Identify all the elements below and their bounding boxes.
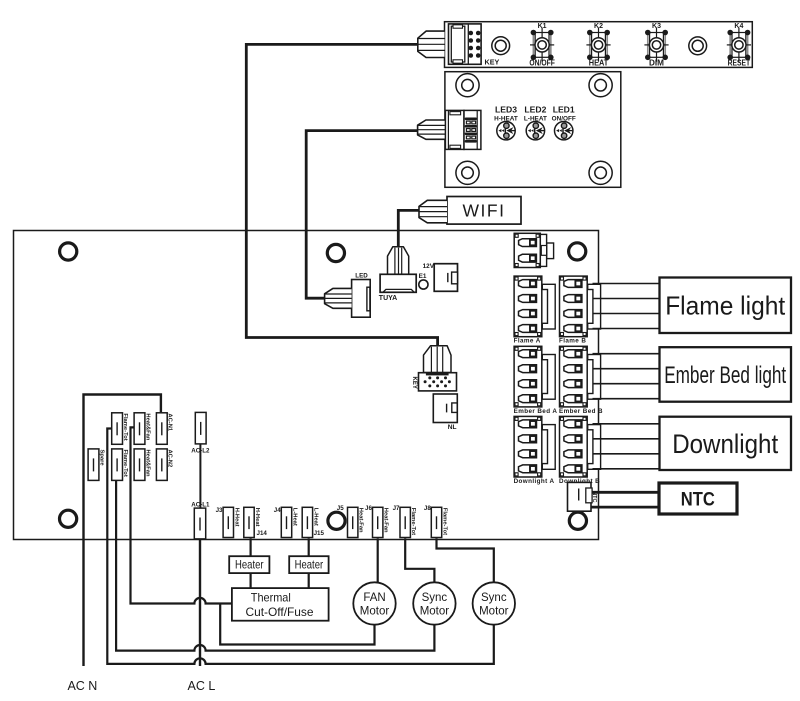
motor Sync Motor 2 (473, 582, 515, 624)
svg-text:J7: J7 (393, 505, 400, 512)
connector Flame B (560, 276, 601, 337)
svg-text:H-Heat: H-Heat (254, 508, 260, 527)
svg-text:L-Heat: L-Heat (312, 508, 318, 526)
main board hole TL (60, 243, 77, 260)
svg-text:KEY: KEY (411, 377, 417, 389)
box NTC (659, 483, 737, 514)
svg-text:J3: J3 (216, 507, 223, 514)
svg-text:J8: J8 (424, 505, 431, 512)
wire Flame B pin4 to Flame light box (593, 328, 660, 330)
svg-text:J15: J15 (314, 530, 325, 537)
connector Flame-Tot (row2) (112, 449, 123, 481)
button K2 HEAT (586, 28, 610, 62)
svg-text:AC N: AC N (67, 679, 97, 693)
svg-text:NTC: NTC (681, 489, 715, 511)
key button strip PCB board (445, 22, 753, 68)
svg-text:E1: E1 (419, 273, 427, 280)
connector J14 H-Heat (244, 507, 254, 537)
main board hole BL (60, 510, 77, 527)
TUYA wifi module U-TUYA (380, 274, 416, 292)
svg-text:LED1: LED1 (553, 105, 575, 115)
connector J15 L-Heat (302, 507, 312, 537)
connector J7 Flame-Tot (400, 507, 410, 537)
svg-text:J5: J5 (337, 505, 344, 512)
svg-text:Heat-Fan: Heat-Fan (358, 508, 364, 533)
connector J8 Flame-Tot (431, 507, 441, 537)
svg-text:Flame-Tot: Flame-Tot (122, 413, 128, 440)
LED board hole BL (456, 161, 479, 184)
button K4 RESET (727, 28, 751, 62)
svg-text:Heat-Fan: Heat-Fan (383, 508, 389, 533)
svg-text:K1: K1 (538, 23, 547, 30)
svg-text:Motor: Motor (360, 606, 390, 618)
box Heater 2 (289, 556, 328, 573)
svg-text:Flame-Tot: Flame-Tot (410, 508, 416, 535)
main board hole BR (569, 512, 586, 529)
wire J15 to Heater2 (308, 538, 310, 556)
svg-text:Flame-Tot: Flame-Tot (122, 450, 128, 477)
svg-text:LED: LED (355, 273, 368, 280)
svg-text:Thermal: Thermal (251, 590, 291, 604)
svg-text:Sync: Sync (422, 592, 448, 604)
connector Heat&Fan (row1) (134, 413, 145, 445)
wire Downlight B pin3 to Downlight box (593, 453, 660, 455)
svg-text:FAN: FAN (363, 592, 385, 604)
LED board hole BR (589, 161, 612, 184)
svg-text:KEY: KEY (485, 57, 500, 66)
LED board hole TL (456, 74, 479, 97)
motor FAN Motor (353, 582, 395, 624)
wire AC N feed to AC-N1 (84, 395, 161, 667)
connector on LED board (445, 110, 481, 149)
svg-text:Downlight: Downlight (672, 429, 778, 459)
wire key-strip to main board KEY connector (246, 44, 437, 346)
svg-text:L-Heat: L-Heat (292, 508, 298, 526)
svg-text:H-Heat: H-Heat (233, 508, 239, 527)
svg-text:K3: K3 (652, 23, 661, 30)
WIFI module box (447, 197, 521, 225)
wire Downlight B pin2 to Downlight box (593, 438, 660, 440)
wire Downlight B pin4 to Downlight box (593, 468, 660, 470)
hole on strip left (492, 37, 510, 55)
box Thermal Cut-Off/Fuse (232, 588, 329, 621)
button K3 DIM (644, 28, 668, 62)
svg-text:LED2: LED2 (524, 105, 546, 115)
connector Ember Bed A (514, 346, 555, 407)
wire AC-L2 to AC-L1 (199, 444, 201, 508)
connector NTC on board (568, 482, 593, 511)
wire LED board to main board LED connector (306, 131, 418, 299)
svg-text:AC-N1: AC-N1 (167, 413, 173, 431)
svg-text:J4: J4 (274, 507, 281, 514)
hole on strip right (689, 37, 707, 55)
indicator LED1 ON/OFF (555, 122, 573, 140)
LED indicator E1 (419, 280, 428, 289)
svg-text:ON/OFF: ON/OFF (529, 58, 555, 67)
wire Heater1 to Thermal (250, 573, 252, 588)
svg-text:Heat&Fan: Heat&Fan (144, 450, 150, 478)
wire J7 to Sync Motor1 (405, 538, 434, 582)
wire Flame-Tot1 to Sync Motor2 bottom (107, 429, 494, 664)
wire Downlight B pin1 to Downlight box (593, 423, 660, 425)
LED board hole TR (589, 74, 612, 97)
svg-text:WIFI: WIFI (463, 200, 506, 220)
svg-text:LED3: LED3 (495, 105, 517, 115)
wire Ember Bed B pin3 to Ember Bed light box (593, 383, 660, 385)
plug P-LED on LED board (418, 120, 446, 139)
button K1 ON/OFF (530, 28, 554, 62)
svg-text:Ember Bed A: Ember Bed A (514, 408, 558, 415)
component NL (433, 394, 457, 423)
connector Downlight A (514, 416, 555, 477)
wire Flame B pin3 to Flame light box (593, 313, 660, 315)
svg-text:Motor: Motor (420, 606, 450, 618)
wire J6 to FAN Motor (377, 538, 379, 582)
connector AC-L1 (194, 508, 205, 539)
svg-text:Heater: Heater (235, 558, 264, 571)
wire Heat&Fan1 to Thermal Cut-Off (131, 427, 232, 603)
plug on TUYA module (388, 247, 409, 275)
main board hole TR (569, 243, 586, 260)
svg-text:AC-N2: AC-N2 (167, 450, 173, 468)
svg-text:Ember Bed B: Ember Bed B (559, 408, 603, 415)
wire Flame B pin1 to Flame light box (593, 283, 660, 285)
wire branch to FAN Motor bottom (220, 604, 374, 645)
svg-text:L-HEAT: L-HEAT (524, 116, 547, 123)
main board hole TC (327, 244, 344, 261)
svg-text:NL: NL (448, 424, 457, 431)
wire Ember Bed B pin1 to Ember Bed light box (593, 353, 660, 355)
svg-text:H-HEAT: H-HEAT (494, 116, 518, 123)
wire Ember Bed B pin2 to Ember Bed light box (593, 368, 660, 370)
indicator LED2 L-HEAT (526, 122, 544, 140)
connector J4-a L-Heat (281, 507, 291, 537)
connector Ember Bed B (560, 346, 601, 407)
connector Downlight B (560, 416, 601, 477)
svg-text:AC L: AC L (188, 679, 216, 693)
connector Flame-Tot (row1) (112, 413, 123, 445)
plug P-WIFI (419, 200, 447, 223)
connector AC-N2 (156, 449, 167, 481)
svg-text:ON/OFF: ON/OFF (552, 116, 576, 123)
connector KEY on strip (449, 24, 482, 64)
wire Ember Bed B pin4 to Ember Bed light box (593, 398, 660, 400)
box Ember Bed light (660, 347, 792, 402)
svg-text:Ember Bed light: Ember Bed light (664, 362, 786, 389)
connector KEY on main board (419, 373, 457, 391)
connector J6 Heat-Fan (373, 507, 383, 537)
svg-text:K2: K2 (594, 23, 603, 30)
svg-text:Cut-Off/Fuse: Cut-Off/Fuse (246, 605, 314, 619)
main control PCB board (14, 231, 599, 540)
connector J3-a H-Heat (223, 507, 233, 537)
plug P-KEY on strip (418, 31, 445, 57)
box Heater 1 (229, 556, 269, 573)
svg-text:Heat&Fan: Heat&Fan (144, 413, 150, 441)
svg-text:Spare: Spare (98, 450, 104, 467)
svg-text:J14: J14 (257, 530, 268, 537)
wire J14 to Heater1 (250, 538, 252, 556)
svg-text:AC-L1: AC-L1 (191, 501, 210, 508)
connector AC-L2 (195, 412, 206, 444)
wire WIFI to TUYA module (398, 210, 419, 247)
wire Flame-Tot2 to Sync Motor1 bottom (116, 481, 434, 651)
wire Heater2 to Thermal (308, 573, 310, 588)
svg-text:12V: 12V (423, 263, 435, 270)
connector 2-pin top right (514, 233, 553, 267)
connector Flame A (514, 276, 555, 337)
power module 12V (434, 264, 457, 292)
svg-text:Flame A: Flame A (514, 338, 541, 345)
wire NTC 1 (592, 491, 660, 494)
svg-text:Downlight A: Downlight A (514, 478, 555, 485)
svg-text:Flame B: Flame B (559, 338, 586, 345)
svg-text:TUYA: TUYA (379, 295, 397, 302)
connector AC-N1 (156, 413, 167, 445)
svg-text:K4: K4 (734, 23, 743, 30)
connector J6-a Heat-Fan (348, 507, 358, 537)
box Flame light (660, 278, 792, 334)
main board hole BC J5 (328, 512, 345, 529)
LED display PCB board (445, 72, 621, 188)
connector Heat&Fan (row2) (134, 449, 145, 481)
wire NTC 2 (592, 506, 660, 509)
svg-text:Flame light: Flame light (665, 291, 786, 321)
motor Sync Motor 1 (413, 582, 455, 624)
svg-text:Sync: Sync (481, 592, 507, 604)
wire AC L feed (199, 539, 201, 666)
LED connector box on main board (352, 280, 371, 318)
wire J8 to Sync Motor2 (437, 538, 494, 582)
svg-text:DIM: DIM (649, 58, 664, 67)
connector Spare (88, 449, 99, 481)
box Downlight (660, 417, 792, 470)
indicator LED3 H-HEAT (497, 122, 515, 140)
plug on KEY connector (424, 346, 452, 373)
plug P-LED on main board (325, 288, 352, 308)
wire Flame B pin2 to Flame light box (593, 298, 660, 300)
svg-text:HEAT: HEAT (589, 58, 609, 67)
svg-text:Heater: Heater (295, 558, 324, 571)
svg-text:Flame-Tot: Flame-Tot (442, 508, 448, 535)
svg-text:J6: J6 (365, 505, 372, 512)
svg-text:Motor: Motor (479, 606, 509, 618)
svg-text:RESET: RESET (728, 58, 751, 67)
